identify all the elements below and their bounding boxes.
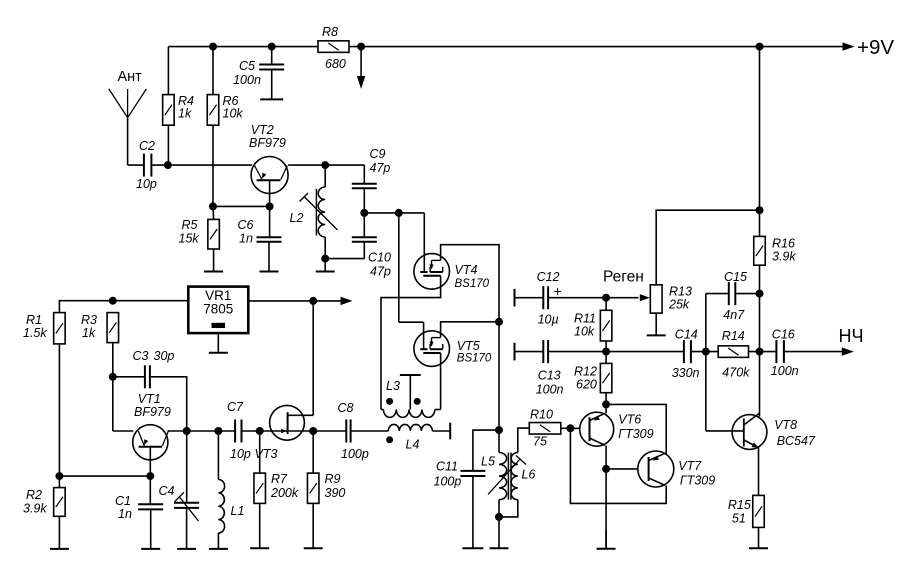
svg-text:Реген: Реген xyxy=(603,269,644,286)
svg-text:Ант: Ант xyxy=(118,69,143,85)
svg-text:10k: 10k xyxy=(223,107,244,121)
svg-text:C10: C10 xyxy=(368,251,391,265)
svg-text:R11: R11 xyxy=(574,312,596,326)
svg-text:C7: C7 xyxy=(227,400,244,414)
svg-text:390: 390 xyxy=(325,486,346,500)
svg-text:VT1: VT1 xyxy=(138,392,161,406)
svg-text:L3: L3 xyxy=(386,379,400,393)
svg-text:C14: C14 xyxy=(675,328,698,342)
svg-text:R7: R7 xyxy=(271,472,288,486)
svg-text:R16: R16 xyxy=(772,237,795,251)
svg-text:10p: 10p xyxy=(230,447,251,461)
svg-text:C8: C8 xyxy=(338,401,354,415)
svg-text:R2: R2 xyxy=(26,488,42,502)
svg-text:VT6: VT6 xyxy=(618,413,641,427)
svg-text:3.9k: 3.9k xyxy=(772,250,796,264)
svg-text:L2: L2 xyxy=(290,211,304,225)
svg-text:L4: L4 xyxy=(406,438,420,452)
svg-text:51: 51 xyxy=(732,512,746,526)
svg-text:10µ: 10µ xyxy=(538,313,559,327)
svg-text:1k: 1k xyxy=(82,326,96,340)
svg-text:1k: 1k xyxy=(178,107,192,121)
svg-text:30p: 30p xyxy=(154,349,175,363)
svg-text:620: 620 xyxy=(576,378,597,392)
svg-text:C5: C5 xyxy=(239,59,255,73)
svg-text:7805: 7805 xyxy=(203,302,233,317)
svg-text:10k: 10k xyxy=(574,325,595,339)
svg-text:VT4: VT4 xyxy=(455,263,478,277)
svg-text:100p: 100p xyxy=(341,447,369,461)
svg-text:C6: C6 xyxy=(238,218,254,232)
svg-text:VT2: VT2 xyxy=(251,123,274,137)
svg-text:C3: C3 xyxy=(133,349,149,363)
svg-text:C12: C12 xyxy=(537,270,560,284)
svg-text:R9: R9 xyxy=(325,472,341,486)
svg-text:VT7: VT7 xyxy=(678,459,702,473)
svg-text:C13: C13 xyxy=(538,369,561,383)
svg-text:R5: R5 xyxy=(182,218,198,232)
svg-text:R8: R8 xyxy=(322,25,338,39)
svg-text:100p: 100p xyxy=(434,475,462,489)
svg-text:R3: R3 xyxy=(81,313,97,327)
svg-text:L1: L1 xyxy=(231,504,245,518)
svg-text:1.5k: 1.5k xyxy=(23,326,47,340)
svg-text:200k: 200k xyxy=(270,486,299,500)
svg-text:680: 680 xyxy=(325,57,346,71)
svg-text:BF979: BF979 xyxy=(249,136,286,150)
svg-text:VT8: VT8 xyxy=(774,418,797,432)
svg-text:R15: R15 xyxy=(728,498,751,512)
svg-text:ГТ309: ГТ309 xyxy=(618,427,653,441)
svg-text:C4: C4 xyxy=(159,484,175,498)
svg-text:25k: 25k xyxy=(668,298,690,312)
svg-text:15k: 15k xyxy=(179,232,200,246)
svg-text:470k: 470k xyxy=(722,366,750,380)
svg-text:L5: L5 xyxy=(481,455,495,469)
svg-text:R10: R10 xyxy=(530,408,553,422)
svg-text:1n: 1n xyxy=(118,507,132,521)
svg-text:100n: 100n xyxy=(233,73,261,87)
svg-text:R12: R12 xyxy=(574,365,597,379)
svg-text:VT5: VT5 xyxy=(457,339,480,353)
svg-text:47p: 47p xyxy=(370,161,391,175)
svg-text:R13: R13 xyxy=(669,285,692,299)
svg-text:C16: C16 xyxy=(772,328,795,342)
svg-text:C11: C11 xyxy=(436,460,458,474)
svg-text:C2: C2 xyxy=(139,139,155,153)
svg-text:4n7: 4n7 xyxy=(723,308,745,322)
svg-text:C9: C9 xyxy=(370,147,386,161)
svg-text:47p: 47p xyxy=(370,265,391,279)
svg-text:3.9k: 3.9k xyxy=(23,502,47,516)
svg-text:1n: 1n xyxy=(239,232,253,246)
svg-text:C15: C15 xyxy=(724,270,747,284)
svg-text:+9V: +9V xyxy=(857,36,894,59)
svg-text:ГТ309: ГТ309 xyxy=(680,474,715,488)
svg-text:BS170: BS170 xyxy=(455,278,490,290)
svg-text:330n: 330n xyxy=(672,366,700,380)
svg-text:+: + xyxy=(554,283,562,299)
svg-text:BC547: BC547 xyxy=(777,434,816,448)
svg-text:BS170: BS170 xyxy=(457,353,492,365)
svg-text:R1: R1 xyxy=(26,313,42,327)
svg-text:75: 75 xyxy=(533,435,547,449)
svg-text:L6: L6 xyxy=(522,468,536,482)
svg-text:100n: 100n xyxy=(771,364,799,378)
svg-text:BF979: BF979 xyxy=(134,405,171,419)
svg-text:НЧ: НЧ xyxy=(839,326,864,346)
svg-text:10p: 10p xyxy=(136,177,157,191)
svg-text:C1: C1 xyxy=(115,494,131,508)
svg-text:R14: R14 xyxy=(722,329,745,343)
svg-text:100n: 100n xyxy=(536,383,564,397)
svg-text:VT3: VT3 xyxy=(255,447,278,461)
